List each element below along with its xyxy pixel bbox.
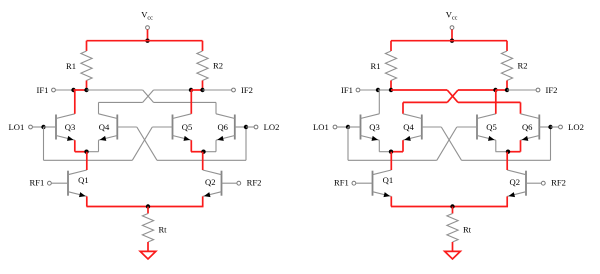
node IF2 collector junction (A) — [189, 88, 193, 92]
transistor Q3 (A) — [55, 115, 57, 140]
wire emitter rail (B) — [391, 206, 508, 208]
wire Rt top stub (B) — [452, 207, 454, 214]
wire Q4-side emitter join (B) — [391, 151, 403, 153]
wire LO1 cross run (A) — [44, 159, 133, 161]
wire Q4-side emitter join (A) — [87, 151, 99, 153]
node IF1 R1 junction (B) — [389, 88, 393, 92]
node tail junction (A) — [146, 204, 150, 208]
wire IF2 junction link (B) — [496, 89, 508, 91]
wire IF1 line to crossover (B) — [391, 89, 447, 91]
terminal IF1 (B) — [356, 88, 360, 92]
terminal Vcc (A) — [146, 26, 150, 30]
node Vcc rail junction (A) — [145, 39, 149, 43]
node LO2 junction (A) — [244, 125, 248, 129]
wire Q5 base lead (B) — [457, 126, 477, 128]
node Vcc rail junction (B) — [450, 39, 454, 43]
node Q1 collector junction (B) — [389, 150, 393, 154]
node Q1 collector junction (A) — [84, 150, 88, 154]
wire LO2 lead (B) — [551, 126, 559, 128]
svg-text:Q6: Q6 — [217, 122, 228, 132]
terminal IF2 (A) — [232, 88, 236, 92]
wire Q5-Q6 emitter join (B) — [496, 151, 509, 153]
wire Q4 collector line to crossover (A) — [99, 101, 143, 103]
node LO1 junction (A) — [41, 125, 45, 129]
wire LO1 diagonal to Q5 base (B) — [437, 127, 457, 160]
transistor Q1 (B) — [372, 171, 374, 196]
wire R2 bottom stub (A) — [202, 81, 204, 91]
wire crossover diagonal IF1-down (B) — [447, 90, 458, 102]
node IF1 R1 junction (A) — [84, 88, 88, 92]
terminal LO2 (A) — [254, 125, 258, 129]
wire IF1 line to crossover (A) — [87, 89, 143, 91]
wire RF2 lead (B) — [526, 182, 541, 184]
wire LO1 cross run (B) — [348, 159, 437, 161]
wire top supply rail (B) — [391, 40, 507, 42]
wire crossover diagonal up-IF2 (A) — [143, 90, 154, 102]
terminal IF1 (A) — [52, 88, 56, 92]
wire IF2 line from crossover (A) — [154, 89, 192, 91]
svg-text:LO1: LO1 — [9, 122, 25, 132]
wire IF2 line from crossover (B) — [458, 89, 496, 91]
wire Rt bottom stub (A) — [147, 242, 149, 251]
wire Q3-Q4 emitter join (A) — [75, 151, 87, 153]
wire Vcc stub (A) — [147, 30, 149, 41]
wire LO1 lead (A) — [32, 126, 43, 128]
svg-text:RF1: RF1 — [334, 178, 349, 188]
node IF1 collector junction (B) — [376, 88, 380, 92]
svg-text:Rt: Rt — [463, 224, 472, 234]
wire Q5 base lead (A) — [152, 126, 172, 128]
resistor R2 (A) — [197, 51, 208, 81]
wire LO2 lead (A) — [246, 126, 254, 128]
resistor R2 (B) — [501, 51, 512, 81]
wire LO1 drop (B) — [347, 127, 349, 160]
terminal LO1 (A) — [29, 125, 33, 129]
node LO2 junction (B) — [548, 125, 552, 129]
wire Vcc stub (B) — [451, 30, 453, 41]
terminal RF1 (A) — [48, 181, 52, 185]
wire Q6 collector riser (B) — [520, 102, 522, 113]
svg-text:R2: R2 — [213, 61, 223, 71]
terminal Vcc (B) — [450, 26, 454, 30]
svg-text:Q4: Q4 — [403, 122, 414, 132]
svg-text:Q1: Q1 — [383, 175, 394, 185]
wire IF1 junction link (B) — [378, 89, 391, 91]
svg-text:Rt: Rt — [158, 224, 167, 234]
wire LO1 drop (A) — [43, 127, 45, 160]
wire Q6 collector line from crossover (B) — [458, 101, 521, 103]
ground (B) — [445, 251, 461, 259]
wire LO1 lead (B) — [337, 126, 348, 128]
transistor Q4 (B) — [421, 115, 423, 140]
wire Q4 base lead (B) — [422, 126, 442, 128]
wire LO2 riser (B) — [550, 127, 552, 160]
terminal RF2 (A) — [237, 181, 241, 185]
svg-text:Vcc: Vcc — [446, 9, 458, 21]
wire crossover diagonal up-IF2 (B) — [447, 90, 458, 102]
svg-text:IF1: IF1 — [37, 85, 49, 95]
resistor Rt (B) — [447, 214, 458, 243]
wire Q6 collector riser (A) — [215, 102, 217, 113]
terminal LO2 (B) — [559, 125, 563, 129]
node tail junction (B) — [450, 204, 454, 208]
transistor Q3 (B) — [360, 115, 362, 140]
wire Rt bottom stub (B) — [452, 242, 454, 251]
svg-text:Q2: Q2 — [205, 177, 216, 187]
node Q2 collector junction (A) — [201, 150, 205, 154]
node IF2 collector junction (B) — [493, 88, 497, 92]
wire R1 top stub (B) — [390, 41, 392, 51]
wire Q3-Q4 emitter join (B) — [379, 151, 391, 153]
node IF2 R2 junction (A) — [200, 88, 204, 92]
svg-text:Q1: Q1 — [78, 175, 89, 185]
wire RF1 lead (B) — [356, 182, 373, 184]
svg-text:Q5: Q5 — [486, 122, 497, 132]
resistor R1 (B) — [385, 51, 396, 81]
wire Q6-side emitter join (A) — [204, 151, 217, 153]
wire R2 top stub (A) — [202, 41, 204, 51]
wire IF2 terminal lead (A) — [203, 89, 232, 91]
wire Q4 diagonal to LO2 run (B) — [441, 127, 461, 160]
wire IF1 terminal lead (B) — [360, 89, 378, 91]
transistor Q4 (A) — [116, 115, 118, 140]
ground (A) — [140, 251, 156, 259]
svg-text:R1: R1 — [66, 61, 76, 71]
terminal RF2 (B) — [541, 181, 545, 185]
transistor Q1 (A) — [67, 171, 69, 196]
node LO1 junction (B) — [346, 125, 350, 129]
wire Q4 collector riser (B) — [402, 102, 404, 113]
wire Q6-side emitter join (B) — [508, 151, 521, 153]
wire LO2 riser (A) — [245, 127, 247, 160]
node IF1 collector junction (A) — [71, 88, 75, 92]
terminal RF1 (B) — [352, 181, 356, 185]
node Q2 collector junction (B) — [506, 150, 510, 154]
wire LO1 to Q3 base (A) — [44, 126, 57, 128]
wire Q5-Q6 emitter join (A) — [191, 151, 204, 153]
wire LO2 to Q6 base (A) — [235, 126, 246, 128]
svg-text:Q5: Q5 — [182, 122, 193, 132]
transistor Q6 (A) — [234, 115, 236, 140]
wire IF1 terminal lead (A) — [55, 89, 73, 91]
transistor Q2 (A) — [221, 171, 223, 196]
transistor Q5 (A) — [172, 115, 174, 140]
wire Q4 diagonal to LO2 run (A) — [137, 127, 157, 160]
terminal LO1 (B) — [333, 125, 337, 129]
wire LO1 diagonal to Q5 base (A) — [132, 127, 152, 160]
wire Q4 base lead (A) — [117, 126, 137, 128]
wire Q4 collector riser (A) — [98, 102, 100, 113]
wire LO2 cross run (B) — [462, 159, 551, 161]
wire IF1 junction link (A) — [74, 89, 87, 91]
wire RF2 lead (A) — [222, 182, 237, 184]
wire Q4 collector line to crossover (B) — [403, 101, 447, 103]
svg-text:IF1: IF1 — [341, 85, 353, 95]
svg-text:Q3: Q3 — [65, 122, 76, 132]
wire LO2 cross run (A) — [157, 159, 246, 161]
svg-text:R1: R1 — [370, 61, 380, 71]
wire R1 top stub (A) — [86, 41, 88, 51]
transistor Q6 (B) — [538, 115, 540, 140]
svg-text:LO2: LO2 — [264, 122, 280, 132]
resistor R1 (A) — [81, 51, 92, 81]
svg-text:Vcc: Vcc — [141, 9, 153, 21]
wire R1 bottom stub (A) — [86, 81, 88, 91]
wire R2 bottom stub (B) — [506, 81, 508, 91]
transistor Q2 (B) — [525, 171, 527, 196]
svg-text:R2: R2 — [517, 61, 527, 71]
wire R1 bottom stub (B) — [390, 81, 392, 91]
wire Rt top stub (A) — [147, 207, 149, 214]
wire top supply rail (A) — [87, 40, 203, 42]
svg-text:Q2: Q2 — [510, 177, 521, 187]
resistor Rt (A) — [142, 214, 153, 243]
wire RF1 lead (A) — [51, 182, 68, 184]
wire Q6 collector line from crossover (A) — [154, 101, 217, 103]
svg-text:Q4: Q4 — [99, 122, 110, 132]
svg-text:LO2: LO2 — [568, 122, 584, 132]
transistor Q5 (B) — [476, 115, 478, 140]
svg-text:IF2: IF2 — [546, 85, 558, 95]
svg-text:IF2: IF2 — [241, 85, 253, 95]
svg-text:RF2: RF2 — [247, 178, 262, 188]
node IF2 R2 junction (B) — [505, 88, 509, 92]
svg-text:Q3: Q3 — [369, 122, 380, 132]
wire emitter rail (A) — [87, 206, 204, 208]
svg-text:Q6: Q6 — [522, 122, 533, 132]
svg-text:LO1: LO1 — [313, 122, 329, 132]
wire LO1 to Q3 base (B) — [348, 126, 361, 128]
wire crossover diagonal IF1-down (A) — [143, 90, 154, 102]
wire IF2 terminal lead (B) — [507, 89, 536, 91]
svg-text:RF2: RF2 — [551, 178, 566, 188]
terminal IF2 (B) — [536, 88, 540, 92]
wire LO2 to Q6 base (B) — [539, 126, 550, 128]
wire IF2 junction link (A) — [191, 89, 203, 91]
svg-text:RF1: RF1 — [29, 178, 44, 188]
wire R2 top stub (B) — [506, 41, 508, 51]
